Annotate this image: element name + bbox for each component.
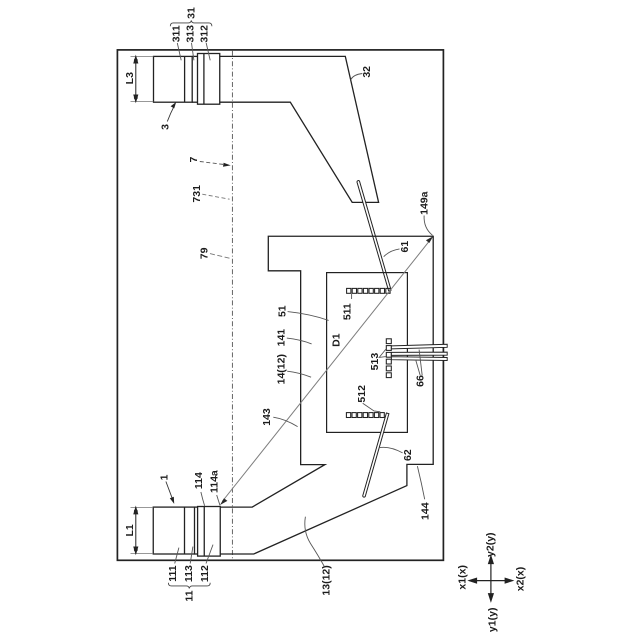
coordinate axes cross [469, 556, 512, 601]
svg-text:113: 113 [183, 565, 195, 582]
board 51 inner rectangle [327, 273, 408, 433]
svg-text:31: 31 [186, 7, 198, 19]
svg-text:61: 61 [399, 241, 411, 253]
svg-text:3: 3 [159, 124, 171, 130]
svg-text:y1(y): y1(y) [486, 608, 498, 633]
svg-text:731: 731 [191, 185, 203, 203]
outer frame rectangle [117, 50, 443, 560]
svg-text:D1: D1 [330, 333, 342, 347]
svg-text:x2(x): x2(x) [515, 567, 527, 592]
block 1 connector lines to 112 [195, 506, 198, 508]
element column 513 squares [386, 339, 391, 378]
svg-text:144: 144 [419, 502, 431, 520]
svg-text:y2(y): y2(y) [485, 532, 497, 557]
svg-text:11: 11 [184, 590, 196, 601]
svg-text:14(12): 14(12) [275, 354, 287, 384]
rod 61 (thin mirror) [357, 181, 391, 291]
block 1 divider 111|113 [184, 507, 186, 554]
dimension L3 [131, 57, 154, 102]
housing 14(12) and duct 13(12) combined outline [220, 236, 433, 554]
svg-text:51: 51 [276, 305, 288, 317]
block 312 [198, 54, 220, 105]
svg-text:143: 143 [261, 408, 273, 426]
centerline 7 (dash-dot optical axis) [231, 51, 233, 560]
svg-text:1: 1 [158, 474, 170, 480]
svg-text:111: 111 [167, 565, 179, 582]
block 3 connector lines to 312 [192, 55, 197, 57]
svg-text:114a: 114a [208, 470, 220, 493]
svg-text:513: 513 [369, 353, 381, 371]
svg-text:66: 66 [414, 375, 426, 387]
svg-text:512: 512 [356, 385, 368, 403]
svg-text:L3: L3 [124, 72, 136, 84]
svg-text:312: 312 [199, 25, 211, 43]
dimension L1 [131, 507, 154, 553]
ray 143 (gray double arrow) [220, 236, 433, 505]
leader 313 [192, 43, 194, 60]
block 312 inner divider [203, 54, 205, 105]
leader 312 [206, 43, 210, 60]
svg-text:32: 32 [361, 66, 373, 78]
element row 511 squares [347, 288, 390, 293]
block 3 main body (311/313) [154, 56, 193, 102]
block 112 [198, 507, 221, 557]
svg-text:311: 311 [170, 25, 182, 42]
svg-text:511: 511 [341, 303, 353, 320]
element row 512 squares [346, 413, 384, 418]
svg-text:79: 79 [199, 247, 211, 259]
cables 66 (three flat wires) [391, 344, 447, 360]
leader 311 [177, 43, 181, 60]
block 3 divider 311|313 [184, 56, 186, 102]
brace for 11 group [168, 583, 210, 589]
svg-text:L1: L1 [124, 524, 136, 536]
svg-text:149a: 149a [418, 191, 430, 215]
svg-text:x1(x): x1(x) [456, 565, 468, 590]
funnel 32 outline [220, 56, 379, 202]
svg-text:13(12): 13(12) [320, 565, 332, 595]
svg-text:62: 62 [402, 449, 414, 461]
svg-text:114: 114 [193, 472, 205, 489]
svg-text:112: 112 [199, 565, 211, 582]
svg-text:7: 7 [188, 157, 200, 163]
block 112 inner divider [203, 507, 205, 557]
rod 62 (thin mirror) [363, 413, 389, 497]
block 1 main body (111/113) [153, 507, 194, 554]
svg-text:313: 313 [185, 25, 197, 43]
svg-text:141: 141 [275, 329, 287, 347]
brace for 31 group [170, 20, 212, 26]
